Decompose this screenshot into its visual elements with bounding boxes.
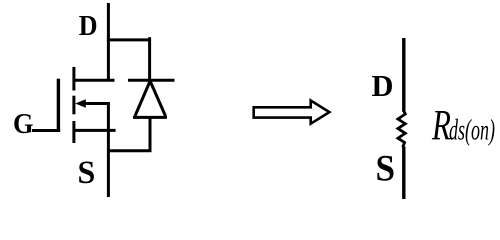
svg-text:D: D [372,69,394,103]
svg-text:ds(on): ds(on) [449,114,495,147]
svg-text:D: D [79,10,98,41]
svg-text:S: S [78,155,96,192]
svg-text:S: S [376,147,396,188]
svg-text:R: R [431,103,451,150]
svg-text:G: G [13,107,34,139]
